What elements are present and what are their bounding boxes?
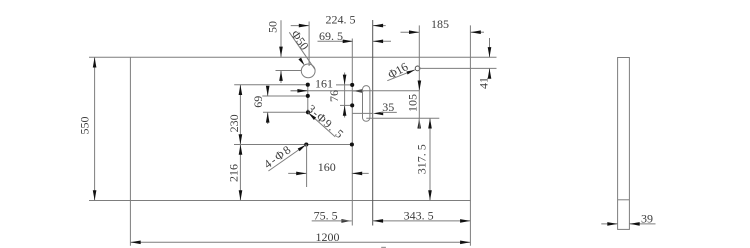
line y=84.9 right segment [336, 84, 352, 86]
svg-text:76: 76 [327, 90, 341, 102]
dim 69.5 line [318, 40, 354, 42]
svg-text:224. 5: 224. 5 [326, 12, 356, 26]
dots on x=352 [350, 83, 354, 87]
svg-text:185: 185 [431, 17, 449, 31]
hole circle D50 [301, 64, 315, 78]
svg-text:75. 5: 75. 5 [314, 209, 338, 223]
dim 41 arrow lines [489, 38, 491, 57]
vertical connector x=307.8 [307, 85, 309, 113]
hole circle D16 [415, 66, 420, 71]
dim 69 arrow line [267, 87, 269, 97]
leader 4-D8 [268, 145, 306, 171]
dim 224.5 line [291, 25, 309, 27]
part outline bottom edge [89, 200, 471, 202]
slot obround [363, 86, 370, 122]
D16 leader line [387, 70, 415, 81]
dim 185 line [401, 31, 420, 33]
dim 161 arrows [291, 90, 308, 92]
dim 230-216 line x=240.4 [239, 85, 241, 201]
dim 105 arrows [418, 81, 422, 91]
D50 leader line [289, 32, 315, 69]
line y=144.5 [234, 144, 352, 146]
svg-text:Φ50: Φ50 [288, 28, 311, 53]
dim 1200 line [130, 241, 470, 243]
svg-text:550: 550 [77, 117, 91, 135]
long extension line x=352 [351, 39, 353, 226]
dim 39 line [601, 223, 617, 225]
line y=96 [262, 95, 308, 97]
leader 3-D9.5 [308, 113, 335, 137]
cropped text fragment at bottom [381, 247, 386, 248]
svg-text:69: 69 [251, 96, 265, 108]
line y=105.4 segment [340, 104, 352, 106]
svg-text:4-Φ8: 4-Φ8 [261, 142, 295, 171]
dim 76 arrow line [344, 73, 346, 118]
slot bottom centerline y=118.2 [366, 117, 439, 119]
side view outline [618, 58, 630, 230]
part outline left edge / 1200 extension [129, 57, 131, 246]
dim 35 leader [352, 112, 373, 114]
dim 50 extension line from circle [276, 70, 302, 72]
D16 centerline to right [420, 67, 497, 69]
D50 extension line down from 224.5 [308, 22, 310, 67]
svg-text:317. 5: 317. 5 [415, 144, 429, 174]
svg-text:39: 39 [641, 212, 653, 226]
part outline top edge [89, 56, 497, 58]
long extension line x=372.7 [372, 20, 374, 226]
dim 75.5 leader [312, 220, 345, 222]
svg-text:3-Φ9. 5: 3-Φ9. 5 [305, 102, 348, 142]
slot top centerline y=90.8 [291, 90, 420, 92]
160 left extension line [306, 145, 308, 188]
extension line x=419 through D16 [418, 25, 420, 118]
line y=112.3 [263, 111, 308, 113]
svg-text:50: 50 [266, 21, 280, 33]
dim 317.5 line [429, 118, 431, 200]
svg-text:41: 41 [477, 77, 491, 89]
svg-text:1200: 1200 [316, 230, 340, 244]
svg-text:161: 161 [315, 77, 333, 91]
line y=84.7 left segment [234, 84, 308, 86]
dim 550 line [94, 57, 96, 200]
svg-text:Φ16: Φ16 [385, 59, 410, 81]
dim 160 line [288, 172, 306, 174]
dim 50 arrow lines [280, 20, 282, 57]
side view inner line [618, 199, 630, 201]
part outline right edge / extension line [469, 25, 471, 245]
svg-text:35: 35 [382, 100, 394, 114]
node dots on x=307.8 [306, 83, 310, 87]
svg-text:105: 105 [406, 94, 420, 112]
svg-text:216: 216 [227, 164, 241, 182]
svg-text:69. 5: 69. 5 [319, 29, 343, 43]
svg-text:343. 5: 343. 5 [404, 209, 434, 223]
dim 343.5 line [373, 220, 471, 222]
svg-text:160: 160 [318, 160, 336, 174]
svg-text:230: 230 [227, 114, 241, 132]
